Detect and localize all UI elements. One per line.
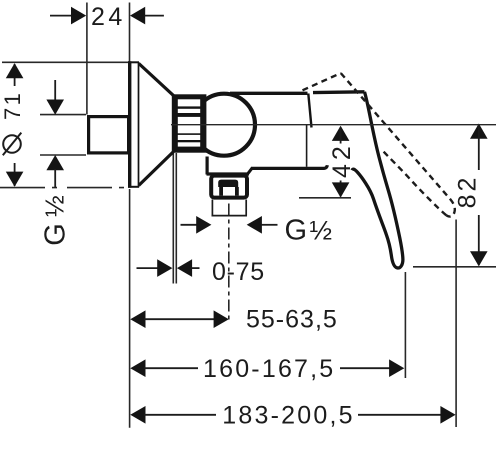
escutcheon flange outer	[128, 61, 131, 188]
wire: upper seg	[54, 80, 56, 101]
wire: dashed-tip ext	[455, 220, 457, 428]
wire: axis centerline	[171, 124, 496, 126]
wire: lower seg	[54, 169, 56, 187]
wire: handle tip ext	[404, 272, 406, 378]
wire: seg upper	[340, 127, 342, 144]
wire: dim 24 left tail	[50, 15, 73, 17]
arrow left	[247, 216, 262, 234]
svg-text:160-167,5: 160-167,5	[203, 355, 335, 383]
svg-text:42: 42	[328, 142, 356, 178]
wire: 82 bottom ref	[413, 266, 496, 268]
arrow left	[130, 310, 145, 328]
pipe nipple	[89, 117, 129, 153]
svg-text:71: 71	[0, 91, 25, 120]
arrow down	[470, 251, 488, 266]
wire: left tail	[181, 224, 198, 226]
svg-text:24: 24	[91, 3, 126, 31]
wire: seg lower	[340, 181, 342, 197]
dashed handle raised: rise	[303, 73, 341, 90]
arrow left	[130, 7, 145, 25]
arrow right	[71, 7, 86, 25]
dashed handle raised: lower edge	[383, 151, 447, 216]
escutcheon flange bottom cap	[128, 186, 139, 188]
wire: 42 bottom ref	[299, 197, 351, 199]
wire: left vertical ext	[129, 189, 131, 428]
wire: dim line right	[358, 414, 442, 416]
wire: dim line left	[144, 414, 216, 416]
cone bottom edge	[139, 152, 174, 186]
label O71 diameter symbol circle	[3, 135, 21, 153]
svg-text:0-75: 0-75	[212, 258, 265, 286]
arrow left	[177, 259, 192, 277]
wire: seg upper	[478, 125, 480, 170]
wire: double ext a	[172, 153, 174, 284]
arrow up	[46, 155, 64, 170]
valve shoulder	[207, 172, 250, 175]
svg-text:½: ½	[310, 216, 333, 246]
svg-text:183-200,5: 183-200,5	[222, 402, 354, 430]
wire: dim line left	[144, 367, 198, 369]
arrow up	[332, 126, 350, 141]
wire: dim 24 right tail	[145, 15, 164, 17]
collar (threaded ring)	[173, 95, 206, 151]
svg-text:G: G	[40, 223, 72, 246]
wire: pipe top left ext	[40, 114, 86, 116]
wire: outlet centerline dash-dot	[228, 204, 230, 321]
body right edge thin	[306, 125, 308, 167]
body circle	[193, 94, 255, 156]
svg-text:82: 82	[454, 175, 482, 209]
arrow left	[130, 406, 145, 424]
arrow down	[332, 182, 350, 197]
body box top edge	[230, 92, 308, 95]
wire: dim line lower seg	[14, 163, 16, 186]
arrow left	[130, 359, 145, 377]
arrow down	[46, 100, 64, 115]
wire: pipe bottom left ext	[40, 154, 86, 156]
wire: O71 bottom ref dash-dot	[0, 187, 129, 189]
valve left edge	[206, 157, 209, 175]
svg-text:G: G	[285, 215, 308, 247]
body bottom edge	[251, 165, 327, 168]
wire: dim line upper seg	[14, 64, 16, 86]
hex nut	[211, 176, 247, 198]
arrow down	[6, 172, 24, 187]
arrow right	[389, 359, 404, 377]
wire: ext line 24-left	[86, 3, 88, 115]
body step to valve	[248, 168, 252, 174]
escutcheon flange inner	[138, 62, 140, 187]
wire: right tail	[262, 224, 278, 226]
wire: right tail	[192, 267, 200, 269]
cone top edge	[139, 64, 174, 96]
arrow up	[6, 63, 24, 78]
wire: left tail	[137, 267, 159, 269]
svg-text:55-63,5: 55-63,5	[246, 306, 338, 334]
arrow right	[440, 406, 455, 424]
handle outer edge + tip + inner edge	[352, 92, 403, 268]
wire: ext line 24-right	[129, 3, 131, 63]
handle top edge	[313, 90, 365, 94]
outlet connector	[212, 200, 248, 216]
wire: O71 top ref	[2, 61, 129, 63]
wire: seg lower	[478, 215, 480, 265]
arrow up	[470, 124, 488, 139]
escutcheon flange top cap	[128, 61, 139, 63]
label O71 diameter symbol slash	[3, 133, 22, 156]
arrow right	[196, 216, 211, 234]
wire: dim line right	[340, 367, 391, 369]
arrow right	[214, 310, 229, 328]
handle joint slant line	[308, 94, 311, 128]
dashed handle raised: upper edge	[341, 73, 455, 216]
wire: dim line	[144, 318, 215, 320]
wire: double ext b	[175, 153, 177, 284]
arrow right	[157, 259, 172, 277]
svg-text:½: ½	[40, 195, 70, 217]
